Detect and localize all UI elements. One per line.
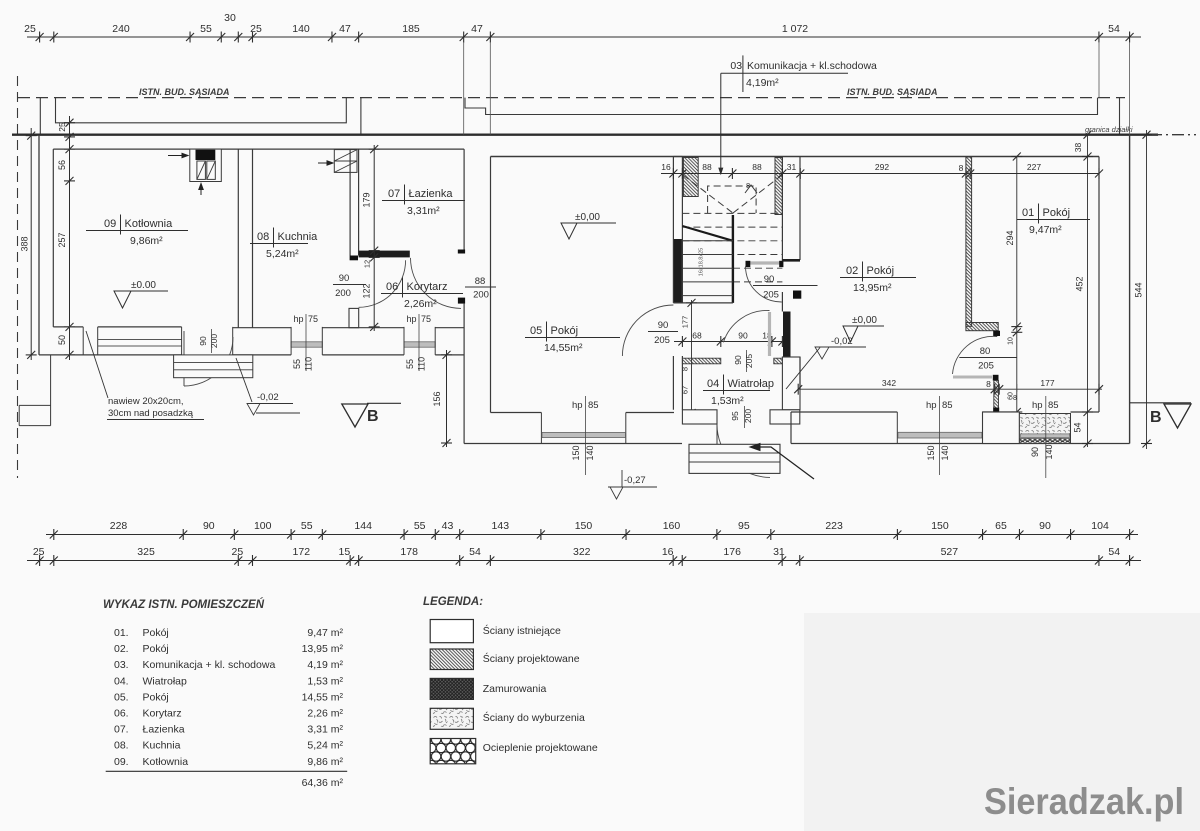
svg-text:9,86 m²: 9,86 m²: [307, 756, 343, 768]
svg-text:Kuchnia: Kuchnia: [143, 740, 181, 752]
east wall inner face: [1098, 157, 1100, 413]
svg-text:13,95 m²: 13,95 m²: [302, 643, 344, 655]
svg-text:43: 43: [442, 520, 454, 532]
wall end thick edge at stair door: [782, 259, 800, 262]
svg-text:Kuchnia: Kuchnia: [278, 231, 319, 243]
chimney block kuchnia flue 2: [334, 161, 357, 172]
west wall inner face: [52, 149, 54, 327]
granica dzialki dash-dot right end: [1150, 134, 1196, 136]
svg-text:90: 90: [738, 331, 748, 341]
svg-text:Wiatrołap: Wiatrołap: [143, 675, 188, 687]
room02 window jambs: [896, 412, 898, 444]
legend swatch bricked up: [430, 678, 473, 699]
svg-text:16: 16: [662, 546, 674, 558]
room label 04 Wiatrolap: [703, 375, 774, 408]
hatched new wall between 01 and 02 vertical: [966, 157, 972, 326]
svg-text:02: 02: [846, 265, 858, 277]
svg-text:223: 223: [825, 520, 843, 532]
speckled wall to demolish: [1019, 414, 1070, 444]
stair dashed treads: [682, 212, 782, 214]
wiatrolap inner dim line: [674, 341, 790, 343]
chimney kuchnia arrow: [318, 161, 333, 165]
svg-text:38: 38: [1073, 143, 1083, 153]
top chain extension line at x=490.3: [489, 42, 491, 135]
svg-text:B: B: [1150, 409, 1162, 426]
neighbour building outline A: [40, 98, 361, 135]
svg-text:30cm nad posadzką: 30cm nad posadzką: [108, 408, 194, 419]
dash-dot parcel boundary left vertical: [17, 76, 19, 478]
chimney kotlownia arrow: [168, 153, 188, 157]
top chain extension line at x=1099: [1098, 42, 1100, 98]
pier between windows: [983, 412, 1020, 444]
door 80/205 leaf gray: [953, 376, 992, 379]
left dim x69 ticks: [64, 119, 75, 359]
svg-text:±0,00: ±0,00: [852, 315, 877, 326]
svg-text:156: 156: [432, 391, 442, 406]
chimney kotlownia flue 2: [207, 161, 216, 179]
svg-text:200: 200: [473, 290, 489, 301]
svg-text:200: 200: [743, 409, 753, 423]
svg-text:04: 04: [707, 378, 719, 390]
svg-text:47: 47: [471, 23, 483, 35]
svg-text:110: 110: [417, 357, 427, 371]
svg-text:02.: 02.: [114, 643, 129, 655]
room table rows: [114, 627, 344, 768]
room label 07 Lazienka: [382, 185, 465, 218]
svg-text:5,24 m²: 5,24 m²: [307, 740, 343, 752]
svg-text:31: 31: [787, 162, 797, 172]
svg-text:09.: 09.: [114, 756, 129, 768]
svg-text:Kotłownia: Kotłownia: [125, 218, 174, 230]
svg-text:25: 25: [232, 546, 244, 558]
svg-text:90: 90: [1039, 520, 1051, 532]
door jamb line to porch: [716, 424, 718, 444]
svg-text:90: 90: [198, 336, 208, 346]
svg-text:177: 177: [681, 316, 690, 329]
chimney block kuchnia flue 1: [334, 150, 357, 161]
window sill lines room 09: [98, 339, 182, 341]
svg-text:54: 54: [1073, 422, 1083, 432]
svg-text:100: 100: [254, 520, 272, 532]
dim 38 right: [1082, 131, 1093, 139]
exterior door room 09 jambs: [181, 327, 183, 355]
svg-text:Łazienka: Łazienka: [409, 188, 454, 200]
svg-text:30: 30: [224, 12, 236, 24]
exterior door room 09 leaf and arc: [183, 331, 185, 386]
wall 06/05 west face: [463, 149, 465, 443]
svg-text:03.: 03.: [114, 659, 129, 671]
stair east wall upper: [781, 157, 783, 263]
svg-text:Ściany do wyburzenia: Ściany do wyburzenia: [483, 711, 585, 724]
svg-text:-0,27: -0,27: [624, 475, 646, 486]
svg-text:Ocieplenie projektowane: Ocieplenie projektowane: [483, 742, 598, 754]
svg-text:205: 205: [654, 335, 670, 346]
stair bottom line: [673, 302, 733, 304]
svg-text:95: 95: [730, 411, 740, 421]
bottom wall right west cap: [790, 412, 792, 444]
top chain extension line at x=1129.6: [1129, 42, 1131, 135]
svg-text:227: 227: [1027, 162, 1041, 172]
svg-text:294: 294: [1005, 230, 1015, 245]
svg-text:140: 140: [292, 23, 310, 35]
nawiew leader line: [86, 331, 108, 398]
svg-text:4,19 m²: 4,19 m²: [307, 659, 343, 671]
entry porch: [689, 444, 780, 473]
svg-text:200: 200: [209, 334, 219, 348]
svg-text:140: 140: [585, 445, 595, 460]
svg-text:9,86m²: 9,86m²: [130, 235, 163, 247]
svg-text:25: 25: [24, 23, 36, 35]
svg-text:25: 25: [33, 546, 45, 558]
chimney block kotlownia outline: [190, 149, 222, 181]
bottom dim row2 line: [27, 560, 1141, 562]
wall between rooms 08 and 06/07 upper part: [349, 149, 351, 255]
svg-text:Pokój: Pokój: [1043, 207, 1071, 219]
cellar steps outside west wall: [19, 355, 50, 426]
stair hatch block NW: [683, 158, 698, 197]
vent jambs in bottom wall: [82, 327, 84, 355]
stair break diagonal: [682, 226, 733, 241]
svg-text:06: 06: [386, 281, 398, 293]
svg-text:65: 65: [995, 520, 1007, 532]
svg-text:240: 240: [112, 23, 130, 35]
svg-text:143: 143: [492, 520, 510, 532]
svg-text:hp: hp: [572, 400, 583, 411]
svg-text:8: 8: [681, 367, 690, 371]
svg-text:67: 67: [681, 386, 690, 394]
svg-text:Wiatrołap: Wiatrołap: [728, 378, 774, 390]
svg-text:104: 104: [1091, 520, 1109, 532]
svg-text:25: 25: [57, 122, 67, 132]
svg-text:8: 8: [959, 163, 964, 173]
svg-text:205: 205: [763, 290, 779, 301]
svg-text:185: 185: [402, 23, 420, 35]
internal dim ticks: [669, 168, 1103, 179]
svg-text:90: 90: [764, 274, 775, 285]
internal dim line 342/8/177: [798, 388, 1102, 390]
svg-text:Zamurowania: Zamurowania: [483, 683, 547, 695]
svg-text:16x18,8x25: 16x18,8x25: [699, 248, 705, 276]
svg-text:88: 88: [475, 276, 486, 287]
svg-text:144: 144: [354, 520, 372, 532]
neighbour building outline B: [465, 98, 1120, 135]
svg-text:88: 88: [752, 162, 762, 172]
room label 09 Kotlownia: [86, 215, 188, 248]
wall between 07 and 06 with black fill: [359, 251, 410, 258]
legend swatch insulation: [430, 739, 476, 764]
window 2 glazing: [404, 342, 435, 347]
stair door arc: [746, 266, 782, 302]
svg-text:Pokój: Pokój: [551, 325, 579, 337]
svg-text:WYKAZ ISTN. POMIESZCZEŃ: WYKAZ ISTN. POMIESZCZEŃ: [103, 598, 265, 611]
svg-text:544: 544: [1134, 282, 1144, 297]
bottom dim row1 line: [46, 534, 1138, 536]
svg-text:54: 54: [1108, 546, 1120, 558]
svg-text:09: 09: [104, 218, 116, 230]
wiatrolap SE wall piece: [782, 357, 800, 410]
stair hatch block NE: [775, 158, 782, 215]
stair dashed walk line rect: [708, 186, 757, 213]
hatched jamb bottom black cap: [993, 408, 999, 413]
room label 06 Korytarz: [381, 278, 463, 311]
svg-text:200: 200: [335, 288, 351, 299]
svg-text:Sieradzak.pl: Sieradzak.pl: [984, 781, 1184, 822]
bottom wall left top face: [53, 326, 464, 329]
door 05-hall arc: [622, 305, 673, 356]
svg-text:Pokój: Pokój: [143, 643, 169, 655]
hatched wall end cap black: [993, 331, 1000, 336]
svg-text:54: 54: [469, 546, 481, 558]
chimney kotlownia small arrow below: [199, 184, 203, 196]
table sum line: [106, 770, 348, 772]
level mark -0.02 left: [236, 358, 252, 402]
svg-text:325: 325: [137, 546, 155, 558]
bottom wall left outer face: [39, 354, 464, 356]
svg-text:1 072: 1 072: [782, 23, 808, 35]
svg-text:05.: 05.: [114, 691, 129, 703]
top chain extension line at x=463.7: [463, 42, 465, 135]
dim 156 line: [446, 350, 448, 447]
svg-text:452: 452: [1075, 276, 1085, 291]
bottom wall room 05 outer face: [464, 443, 682, 445]
svg-text:15: 15: [339, 546, 351, 558]
wall pier below door 08/06: [349, 308, 359, 327]
svg-text:95: 95: [738, 520, 750, 532]
room label 01 Pokoj: [1017, 204, 1090, 237]
wiatrolap dim line 177/8/67: [691, 300, 693, 414]
room 02 west wall lower: [799, 357, 801, 389]
svg-text:160: 160: [663, 520, 681, 532]
window 2 jambs: [403, 327, 405, 355]
door arc 07 to 06: [411, 258, 462, 309]
svg-text:hp: hp: [407, 314, 417, 324]
svg-text:B: B: [367, 408, 379, 425]
legend swatch demolition: [430, 708, 473, 729]
room02 window glazing: [898, 432, 982, 438]
svg-text:90: 90: [733, 355, 743, 365]
svg-text:55: 55: [292, 359, 302, 369]
wall between rooms 09 and 08: [237, 149, 239, 328]
dim 179 ticks: [369, 145, 380, 331]
chimney kotlownia bricked-up black part: [196, 150, 216, 160]
entry door leaf vertical gray: [768, 312, 771, 356]
svg-text:10: 10: [1008, 337, 1015, 345]
dim 452 right: [1087, 135, 1089, 447]
window 1 glazing: [291, 342, 322, 347]
svg-text:LEGENDA:: LEGENDA:: [423, 596, 483, 608]
svg-text:110: 110: [304, 357, 314, 371]
door 88 jambs black: [458, 250, 465, 254]
speckled wall glazing line: [1021, 434, 1070, 438]
east wall outer face: [1129, 135, 1131, 444]
top dimension line: [27, 36, 1141, 38]
svg-text:granica działki: granica działki: [1085, 125, 1133, 134]
svg-text:12: 12: [363, 260, 372, 268]
wiatrolap west wall: [673, 356, 682, 410]
svg-text:205: 205: [744, 354, 754, 368]
left dim line x69: [69, 116, 71, 360]
svg-text:03: 03: [730, 60, 742, 72]
front door arc: [717, 424, 770, 477]
svg-text:Korytarz: Korytarz: [143, 708, 182, 720]
dim line 179/12/122: [373, 145, 375, 331]
svg-text:2,26 m²: 2,26 m²: [307, 708, 343, 720]
svg-text:Łazienka: Łazienka: [143, 724, 185, 736]
legend swatch projected walls: [430, 649, 473, 670]
svg-text:Pokój: Pokój: [143, 691, 169, 703]
svg-text:205: 205: [978, 361, 994, 372]
bottom dim row2 labels: [33, 546, 1120, 558]
svg-text:8: 8: [1013, 395, 1017, 402]
svg-text:54: 54: [1108, 23, 1120, 35]
svg-text:hp: hp: [294, 314, 304, 324]
svg-text:342: 342: [882, 378, 896, 388]
svg-text:Pokój: Pokój: [867, 265, 895, 277]
svg-text:150: 150: [931, 520, 949, 532]
svg-text:8: 8: [746, 181, 750, 190]
svg-text:04.: 04.: [114, 675, 129, 687]
svg-text:2,26m²: 2,26m²: [404, 298, 437, 310]
svg-text:Korytarz: Korytarz: [407, 281, 448, 293]
door jamb 08/06 black cap: [350, 256, 358, 261]
svg-text:3,31 m²: 3,31 m²: [307, 724, 343, 736]
svg-text:88: 88: [702, 162, 712, 172]
svg-text:±0.00: ±0.00: [131, 280, 156, 291]
legend swatch existing walls: [430, 620, 473, 643]
svg-text:01.: 01.: [114, 627, 129, 639]
wiatrolap north hatched wall right: [774, 358, 783, 364]
section B marker left: [342, 404, 368, 427]
insulation strip below demolition window: [1020, 439, 1070, 444]
svg-text:4,19m²: 4,19m²: [746, 77, 779, 89]
svg-text:140: 140: [940, 445, 950, 460]
svg-text:1,53m²: 1,53m²: [711, 395, 744, 407]
svg-text:08: 08: [257, 231, 269, 243]
svg-text:90: 90: [203, 520, 215, 532]
wiatrolap south wall right: [770, 410, 800, 424]
window room05 jambs: [540, 413, 542, 444]
svg-text:8: 8: [986, 379, 991, 389]
svg-text:Pokój: Pokój: [143, 627, 169, 639]
bottom wall room 05 inner face: [491, 412, 675, 414]
svg-text:179: 179: [362, 192, 372, 207]
svg-text:178: 178: [400, 546, 418, 558]
svg-text:9,47m²: 9,47m²: [1029, 224, 1062, 236]
svg-text:14,55m²: 14,55m²: [544, 342, 583, 354]
svg-text:ISTN. BUD. SĄSIADA: ISTN. BUD. SĄSIADA: [847, 87, 938, 97]
chimney kotlownia flue 1: [197, 161, 206, 179]
stair door leaf gray: [746, 261, 781, 264]
internal dim line y173.5: [661, 173, 1099, 175]
svg-text:257: 257: [57, 232, 67, 247]
svg-text:140: 140: [1044, 444, 1054, 459]
svg-text:55: 55: [405, 359, 415, 369]
window room05 glazing: [542, 432, 625, 437]
wall 06/05 east face: [490, 157, 492, 413]
bottom dim row2 ticks: [36, 555, 1134, 566]
svg-text:322: 322: [573, 546, 591, 558]
svg-text:64,36 m²: 64,36 m²: [302, 777, 344, 789]
dashed line istn. bud. sasiada: [18, 97, 1125, 99]
svg-text:25: 25: [250, 23, 262, 35]
svg-text:150: 150: [571, 445, 581, 460]
svg-text:Komunikacja + kl. schodowa: Komunikacja + kl. schodowa: [143, 659, 276, 671]
svg-text:47: 47: [339, 23, 351, 35]
svg-text:228: 228: [110, 520, 128, 532]
hatched new wall horizontal leg: [966, 323, 998, 331]
bottom wall right inner face: [791, 411, 1099, 413]
level mark -0.27: [621, 470, 623, 487]
wiatrolap north hatched wall left: [682, 358, 720, 364]
bottom dim row1 ticks: [50, 529, 1134, 540]
stair west wall: [672, 157, 674, 303]
svg-text:90: 90: [1030, 447, 1040, 457]
stair solid treads: [682, 240, 733, 242]
svg-text:172: 172: [293, 546, 311, 558]
top wall inner face left section: [53, 148, 464, 150]
stair dashed V left: [683, 175, 733, 213]
svg-text:Ściany projektowane: Ściany projektowane: [483, 652, 580, 665]
svg-text:75: 75: [308, 314, 318, 324]
bottom dim row1 labels: [110, 520, 1109, 532]
svg-text:292: 292: [875, 162, 889, 172]
stair north face: [673, 156, 682, 158]
porch room 09: [174, 355, 253, 378]
watermark background block: [804, 613, 1200, 831]
door 80 jamb black: [993, 375, 999, 381]
dim line 294 and small dims: [1016, 157, 1018, 413]
svg-text:Komunikacja + kl.schodowa: Komunikacja + kl.schodowa: [747, 60, 877, 72]
entry inner door arc: [723, 310, 769, 342]
svg-text:80: 80: [980, 346, 991, 357]
svg-text:90: 90: [658, 320, 669, 331]
svg-text:5,24m²: 5,24m²: [266, 248, 299, 260]
hatched jamb below door: [994, 381, 999, 413]
dim 544 right: [1146, 130, 1148, 449]
svg-text:Kotłownia: Kotłownia: [143, 756, 189, 768]
wiatrolap east wall black: [783, 312, 791, 358]
bottom wall right outer face: [791, 443, 1130, 445]
entry direction arrow: [752, 447, 814, 479]
room label 02 Pokoj: [840, 262, 916, 295]
granica dzialki boundary thick line: [12, 133, 1158, 135]
svg-text:75: 75: [421, 314, 431, 324]
svg-text:388: 388: [20, 236, 30, 251]
svg-text:05: 05: [530, 325, 542, 337]
level mark -0.02 entry: [786, 348, 820, 390]
left dim 388 ticks: [26, 132, 37, 359]
svg-text:ISTN. BUD. SĄSIADA: ISTN. BUD. SĄSIADA: [139, 87, 230, 97]
section B line right: [1130, 402, 1191, 404]
stair center stringer: [732, 215, 734, 303]
svg-text:55: 55: [200, 23, 212, 35]
svg-text:07.: 07.: [114, 724, 129, 736]
svg-text:-0,02: -0,02: [257, 392, 279, 403]
black jamb SE of stair door: [793, 291, 801, 299]
svg-text:177: 177: [1040, 378, 1054, 388]
window 1 jambs: [290, 327, 292, 355]
svg-text:56: 56: [57, 160, 67, 170]
svg-text:122: 122: [362, 283, 372, 298]
leader from label 03: [720, 73, 722, 172]
svg-text:01: 01: [1022, 207, 1034, 219]
svg-text:Ściany istniejące: Ściany istniejące: [483, 624, 561, 637]
svg-text:9,47 m²: 9,47 m²: [307, 627, 343, 639]
svg-text:50: 50: [57, 335, 67, 345]
svg-text:68: 68: [692, 331, 702, 341]
svg-text:1,53 m²: 1,53 m²: [307, 675, 343, 687]
svg-text:150: 150: [575, 520, 593, 532]
